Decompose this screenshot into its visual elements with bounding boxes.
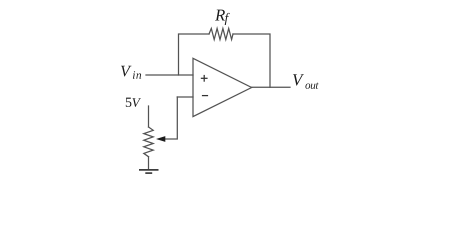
op-amp + pin label <box>201 75 208 82</box>
wiper arrow <box>156 136 165 142</box>
wire output <box>252 86 290 88</box>
wire feedback right segment (top wire right + right vertical to output) <box>233 34 270 87</box>
label Rf <box>215 10 230 25</box>
label 5V <box>126 98 141 107</box>
op-amp U1 <box>193 58 252 116</box>
wire wiper to - input <box>165 97 177 139</box>
label Vout <box>293 74 319 89</box>
wire feedback left segment (top wire left + left vertical to + input node) <box>179 34 210 75</box>
wire - input <box>177 96 193 98</box>
wire 5V to potentiometer <box>148 106 150 127</box>
potentiometer R1 <box>144 127 153 157</box>
ground <box>139 170 159 173</box>
wire potentiometer to ground <box>148 157 150 170</box>
resistor Rf <box>209 29 233 40</box>
op-amp - pin label <box>202 95 208 97</box>
label Vin <box>121 66 141 79</box>
wire Vin to + input <box>146 74 193 76</box>
